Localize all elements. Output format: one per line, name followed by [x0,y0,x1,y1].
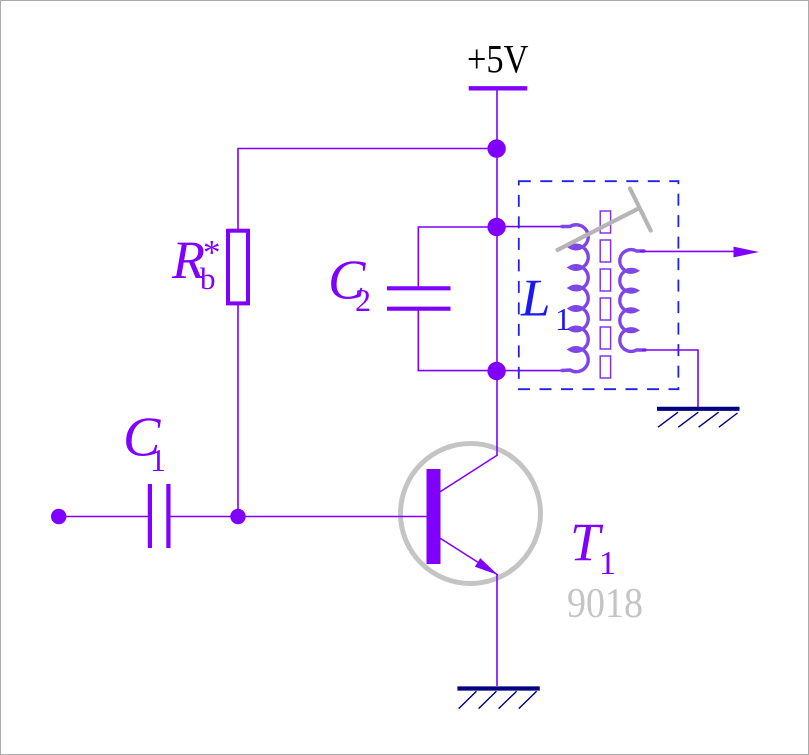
resistor R1 (Rb) body [228,231,248,304]
wire node C to collector [496,371,498,456]
label L1 [520,270,571,338]
label C1 [123,407,166,479]
svg-text:L: L [520,270,550,328]
inductor L1 primary coil [562,225,588,372]
svg-text:+5V: +5V [467,37,529,82]
wire node B to L1 primary top [497,226,566,228]
transistor T1 base bar [427,469,441,564]
power rail bar +5V [469,86,528,90]
transformer core rectangles [600,211,610,378]
svg-text:1: 1 [150,442,166,478]
transistor T1 emitter arrowhead [475,558,498,575]
output wire from secondary top [640,250,742,252]
wire Rb bottom to base node [237,303,239,517]
output arrowhead [734,247,760,258]
node A junction dot [487,139,505,157]
wire C2 bottom to node C [418,309,497,371]
wire node C to L1 primary bottom [497,370,566,372]
label T1 [570,512,616,582]
trimmer crossbar (grey) [630,189,651,231]
transistor T1 circle (grey) [401,444,541,584]
capacitor C1 right plate [166,484,170,548]
wire node B to node C [496,227,498,371]
inductor L1 secondary coil [620,250,645,352]
capacitor C2 bottom plate [387,307,451,311]
svg-text:b: b [200,261,216,296]
svg-text:1: 1 [555,301,571,337]
node C junction dot [487,362,505,380]
ground bar under transistor [457,686,539,690]
capacitor C1 left plate [148,484,152,548]
right ground bar [657,407,740,411]
svg-text:1: 1 [599,545,616,582]
label C2 [328,250,371,319]
transistor T1 emitter line [439,538,498,576]
ground hatch lines under transistor [459,691,537,708]
wire top horizontal to Rb [238,149,497,230]
wire input to C1 [59,516,148,518]
trimmer core adjust rod (grey) [558,208,640,250]
wire emitter to ground [496,574,498,686]
svg-text:9018: 9018 [567,581,643,627]
transformer shield dashed box [519,181,679,389]
node B junction dot [487,218,505,236]
wire power bar to node A [496,88,498,148]
wire C1 to transistor base [168,516,427,518]
wire node B to C2 top [418,227,497,288]
wire node A to node B [496,149,498,228]
right ground hatch lines [658,412,738,427]
input terminal dot [51,509,66,524]
svg-text:2: 2 [355,282,371,318]
wire secondary bottom to right ground [642,350,698,407]
capacitor C2 top plate [387,286,451,290]
base node junction dot [230,509,245,524]
label Rb* [171,230,221,296]
transistor T1 collector line [439,455,498,493]
